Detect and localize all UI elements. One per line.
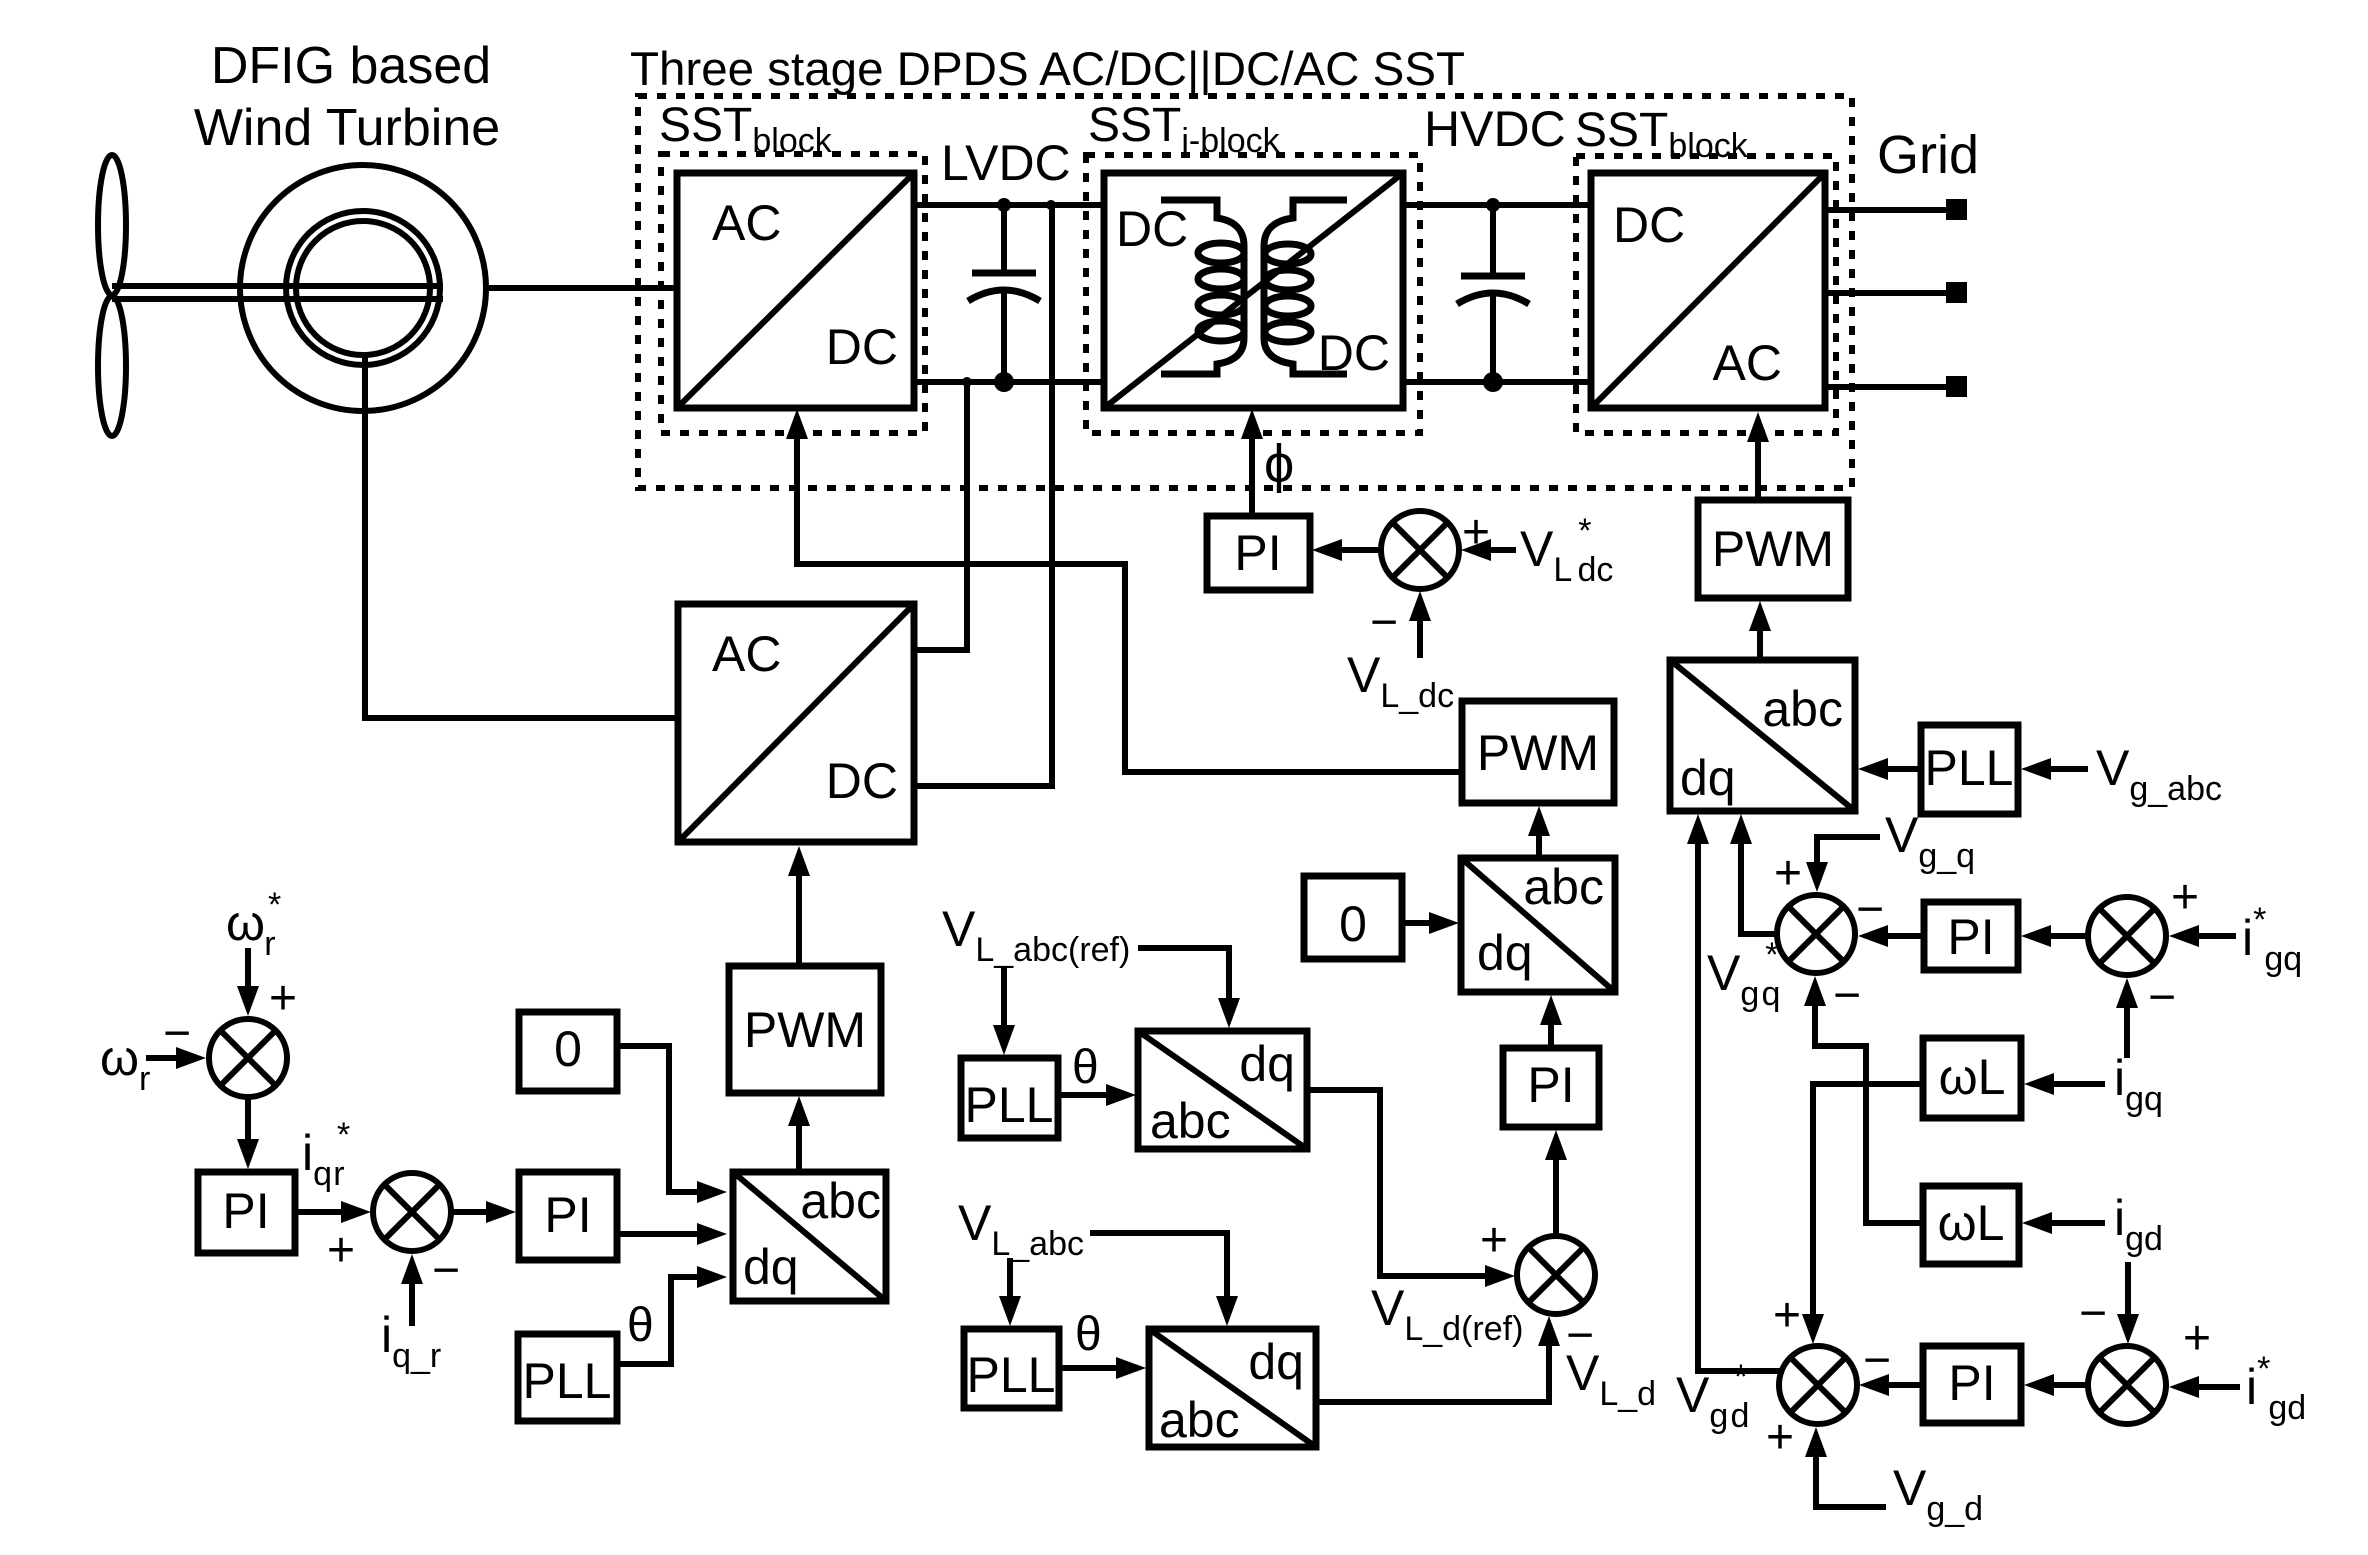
svg-text:+: + — [1773, 1289, 1801, 1342]
wire V_L_abc to PLL 2 — [999, 1258, 1021, 1326]
label V_L_d feedback — [1566, 1345, 1656, 1413]
label phi — [1264, 434, 1294, 494]
svg-text:PI: PI — [1234, 525, 1281, 581]
wire V_Ld(ref) to S2 — [1307, 1090, 1515, 1287]
summing junction S2 (V_Ld) — [1517, 1236, 1595, 1314]
label V_g_abc — [2096, 740, 2222, 808]
svg-text:−: − — [1833, 969, 1861, 1022]
wire PI current to rotor abc/dq — [617, 1223, 727, 1245]
wire V_g_d to S7 — [1805, 1427, 1886, 1507]
block abc/dq (LV modulation) — [1461, 858, 1615, 992]
wire S4 to PI current — [451, 1201, 516, 1223]
label Grid — [1877, 125, 1979, 185]
block PLL (grid) — [1921, 725, 2018, 814]
block gain omega-L (q) — [1923, 1038, 2021, 1118]
label minus S7 right — [1863, 1334, 1891, 1387]
DFIG generator stator circle — [240, 165, 486, 411]
wire V_L_abc(ref) to PLL — [993, 968, 1015, 1055]
label SST_block (left) — [659, 99, 833, 160]
wire S8 to PI igd — [2024, 1374, 2088, 1396]
label V_g*d output — [1676, 1358, 1749, 1435]
svg-text:ωL: ωL — [1938, 1195, 2005, 1251]
label theta (LV meas) — [1075, 1308, 1102, 1361]
label V_L_abc(ref) — [942, 901, 1130, 969]
svg-text:DC: DC — [826, 753, 898, 809]
label theta (LV ref) — [1072, 1041, 1099, 1094]
label V_L_dc feedback — [1347, 647, 1454, 715]
block PWM (rotor converter) — [729, 966, 881, 1093]
controller PI (V_Ld) — [1503, 1048, 1599, 1127]
block PLL (rotor) — [518, 1334, 617, 1421]
wire S2 to PI — [1545, 1130, 1567, 1236]
label minus S2 — [1566, 1309, 1594, 1362]
wire V_Ld to S2 — [1316, 1316, 1560, 1402]
wind turbine shaft — [112, 286, 443, 299]
svg-text:+: + — [1480, 1214, 1508, 1267]
label i*_gq reference — [2242, 901, 2302, 978]
svg-text:+: + — [327, 1224, 355, 1277]
svg-text:DFIG based: DFIG based — [211, 37, 491, 95]
svg-text:HVDC: HVDC — [1424, 101, 1566, 157]
wire abc/dq to PWM — [1528, 806, 1550, 858]
node LVDC label — [941, 135, 1071, 191]
node HVDC label — [1424, 101, 1566, 157]
svg-text:PWM: PWM — [744, 1002, 866, 1058]
svg-text:+: + — [2183, 1312, 2211, 1365]
wire PLL theta to abc/dq — [1058, 1084, 1136, 1106]
converter U4 AC/DC (rotor-side) — [678, 604, 914, 842]
wire 0 to rotor abc/dq — [617, 1046, 727, 1203]
label V_L_d(ref) — [1371, 1280, 1523, 1348]
wire PLL to grid abc/dq — [1858, 758, 1921, 780]
controller PI (speed) — [198, 1172, 295, 1253]
svg-text:PWM: PWM — [1477, 725, 1599, 781]
wire i_gd to S8 — [2117, 1262, 2139, 1344]
label plus S5 — [1774, 847, 1802, 900]
label i_gd input — [2114, 1190, 2163, 1258]
svg-text:PI: PI — [1948, 1355, 1995, 1411]
label plus S4 — [327, 1224, 355, 1277]
inner dashed box SST_i-block — [1086, 155, 1420, 433]
label V_g_d feedforward — [1893, 1460, 1983, 1528]
block abc/dq (grid modulation) — [1670, 660, 1855, 811]
wire PWM to rotor converter gate — [788, 846, 810, 966]
svg-text:LVDC: LVDC — [941, 135, 1071, 191]
svg-text:PLL: PLL — [967, 1347, 1056, 1403]
wire grid abc/dq to PWM — [1749, 601, 1771, 660]
label omega_r* reference — [226, 886, 281, 963]
wire PI igd to S7 — [1859, 1374, 1923, 1396]
wire S5 to grid abc/dq (V_gq*) — [1730, 814, 1777, 934]
svg-text:dq: dq — [1477, 925, 1533, 981]
wire V_L*dc to S1 — [1461, 539, 1516, 561]
block zero reference (LV q) — [1304, 876, 1402, 959]
svg-text:DC: DC — [1613, 197, 1685, 253]
wire S7 to grid abc/dq (V_gd*) — [1687, 814, 1784, 1371]
svg-text:dq: dq — [1248, 1334, 1304, 1390]
summing junction S5 (V_gq*) — [1777, 895, 1855, 973]
svg-text:PI: PI — [1527, 1057, 1574, 1113]
label V_g_q feedforward — [1885, 807, 1975, 875]
junction dot LVDC+ rotor link — [1046, 200, 1056, 210]
svg-text:abc: abc — [1762, 681, 1843, 737]
wire i_gd to omega-L d — [2022, 1212, 2105, 1234]
wind turbine blade upper — [98, 155, 126, 295]
wire i*gq to S6 — [2169, 925, 2236, 947]
wire grid phase b — [1825, 290, 1946, 296]
svg-text:PLL: PLL — [965, 1077, 1054, 1133]
label i_gq input — [2114, 1050, 2163, 1118]
label minus S5 right — [1856, 883, 1884, 936]
wire stator to SST input — [486, 285, 677, 291]
svg-text:+: + — [1766, 1411, 1794, 1464]
svg-text:−: − — [2148, 971, 2176, 1024]
wire i_q_r to S4 — [401, 1254, 423, 1326]
wire omega-L q to S7 — [1802, 1084, 1923, 1344]
wire PLL theta to rotor abc/dq — [617, 1266, 727, 1364]
svg-text:abc: abc — [800, 1173, 881, 1229]
wire i*gd to S8 — [2169, 1376, 2240, 1398]
wire grid phase a — [1825, 207, 1946, 213]
label i_q*_r reference — [302, 1116, 350, 1193]
label plus S6 — [2171, 871, 2199, 924]
junction dot LVDC- cap — [994, 372, 1014, 392]
svg-text:ωL: ωL — [1939, 1049, 2006, 1105]
junction dot HVDC+ cap — [1486, 198, 1500, 212]
svg-text:+: + — [2171, 871, 2199, 924]
svg-text:Wind Turbine: Wind Turbine — [194, 99, 500, 157]
wire V_L_abc to abc/dq 2 — [1090, 1233, 1238, 1326]
wire V_L_abc(ref) to abc/dq — [1138, 948, 1240, 1028]
label plus S1 — [1462, 506, 1490, 559]
wire rotor-converter upper DC to LVDC- bus — [914, 382, 967, 650]
label i_q_r feedback — [381, 1307, 441, 1375]
label minus S3 — [163, 1007, 191, 1060]
svg-text:dq: dq — [1239, 1036, 1295, 1092]
wire S6 to PI igq — [2021, 925, 2088, 947]
inner dashed box SST_block right — [1576, 156, 1836, 433]
svg-text:dq: dq — [743, 1239, 799, 1295]
svg-text:DC: DC — [1116, 201, 1188, 257]
wire HVDC bottom bus — [1403, 379, 1591, 385]
wire PI igq to S5 — [1858, 925, 1921, 947]
wire V_Ldc to S1 — [1409, 591, 1431, 658]
wire PLL2 theta to abc/dq 2 — [1059, 1357, 1146, 1379]
DFIG generator rotor circles — [286, 211, 440, 365]
block PWM (LV stator converter) — [1462, 701, 1614, 803]
wire LVDC bottom bus — [914, 379, 1104, 385]
svg-text:0: 0 — [554, 1021, 582, 1077]
svg-text:AC: AC — [712, 195, 781, 251]
grid terminal c — [1946, 376, 1967, 397]
svg-text:+: + — [269, 972, 297, 1025]
svg-text:−: − — [1370, 596, 1398, 649]
wire omega* to S3 — [237, 948, 259, 1016]
wire LVDC top bus — [914, 202, 1104, 208]
svg-text:0: 0 — [1339, 896, 1367, 952]
svg-text:PLL: PLL — [1925, 740, 2014, 796]
label V_L_abc — [958, 1195, 1084, 1263]
svg-text:θ: θ — [1075, 1308, 1102, 1361]
svg-text:abc: abc — [1523, 859, 1604, 915]
svg-text:abc: abc — [1159, 1392, 1240, 1448]
controller PI (phi, DAB) — [1207, 516, 1310, 590]
label omega_r measured — [100, 1030, 150, 1098]
wind turbine blade lower — [98, 296, 126, 436]
svg-text:PI: PI — [1947, 909, 1994, 965]
wire phi arrow PI to DAB — [1241, 409, 1263, 516]
label minus S1 — [1370, 596, 1398, 649]
wire V_g_q to S5 — [1806, 837, 1880, 892]
svg-text:dq: dq — [1680, 750, 1736, 806]
transformer T1 secondary winding — [1264, 200, 1347, 374]
converter U1 AC/DC (stator-side LV rectifier) — [677, 173, 914, 408]
transformer T1 primary winding — [1161, 200, 1244, 374]
svg-text:Three stage DPDS AC/DC||DC/AC: Three stage DPDS AC/DC||DC/AC SST — [630, 43, 1465, 96]
svg-text:abc: abc — [1150, 1093, 1231, 1149]
label plus S7 top — [1773, 1289, 1801, 1342]
svg-text:DC: DC — [826, 319, 898, 375]
label plus S7 bottom — [1766, 1411, 1794, 1464]
svg-text:−: − — [432, 1244, 460, 1297]
wire rotor abc/dq to PWM — [788, 1096, 810, 1172]
wire PWM to stator converter gate — [786, 409, 1462, 772]
wire omega-L d to S5 minus — [1804, 976, 1923, 1223]
capacitor C1 (LVDC link) — [968, 205, 1040, 382]
wire grid phase c — [1825, 384, 1946, 390]
label minus S8 top — [2079, 1287, 2107, 1340]
svg-text:PI: PI — [222, 1183, 269, 1239]
label minus S4 — [432, 1244, 460, 1297]
controller PI (i_gd) — [1923, 1346, 2021, 1423]
svg-text:ϕ: ϕ — [1264, 434, 1294, 494]
svg-text:PI: PI — [544, 1187, 591, 1243]
block zero reference (rotor d) — [519, 1012, 617, 1091]
junction dot LVDC+ cap — [997, 198, 1011, 212]
wire 0 to abc/dq — [1402, 912, 1459, 934]
label plus S2 — [1480, 1214, 1508, 1267]
svg-text:AC: AC — [1713, 335, 1782, 391]
junction dot HVDC- cap — [1483, 372, 1503, 392]
label SST_block (right) — [1575, 104, 1749, 165]
capacitor C2 (HVDC link) — [1457, 205, 1529, 382]
wire rotor to rotor-side converter — [365, 354, 678, 718]
label: DFIG based Wind Turbine — [194, 37, 500, 157]
block gain omega-L (d) — [1923, 1186, 2019, 1264]
svg-text:PWM: PWM — [1712, 521, 1834, 577]
block PLL (V_L measured) — [964, 1329, 1059, 1408]
svg-text:θ: θ — [627, 1299, 654, 1352]
inner dashed box SST_block left — [661, 154, 925, 433]
label plus S8 — [2183, 1312, 2211, 1365]
wire S1 to PI — [1312, 539, 1383, 561]
wire PWM to grid inverter gate — [1747, 412, 1769, 500]
wire i_gq to omega-L q — [2024, 1073, 2105, 1095]
svg-text:PLL: PLL — [523, 1353, 612, 1409]
label i*_gd reference — [2246, 1350, 2306, 1427]
summing junction S1 (V_Ldc) — [1381, 511, 1459, 589]
label V_L*dc reference — [1520, 512, 1613, 589]
block abc/dq (V_L measurement) — [1149, 1329, 1316, 1448]
converter U3 DC/AC (grid-side HV inverter) — [1591, 173, 1825, 408]
label theta (rotor) — [627, 1299, 654, 1352]
controller PI (i_gq) — [1924, 902, 2018, 970]
svg-text:Grid: Grid — [1877, 125, 1979, 185]
summing junction S6 (i_gq) — [2088, 897, 2166, 975]
block PWM (grid inverter) — [1698, 500, 1848, 598]
controller PI (rotor current) — [519, 1172, 617, 1260]
svg-text:−: − — [2079, 1287, 2107, 1340]
svg-text:+: + — [1774, 847, 1802, 900]
summing junction S8 (i_gd) — [2088, 1346, 2166, 1424]
summing junction S3 (speed) — [209, 1019, 287, 1097]
block PLL (LV reference) — [961, 1058, 1058, 1138]
summing junction S4 (i_q) — [373, 1173, 451, 1251]
junction dot LVDC- rotor link — [962, 377, 972, 387]
summing junction S7 (V_gd*) — [1779, 1346, 1857, 1424]
wire S3 to PI speed — [237, 1097, 259, 1169]
wire omega_r to S3 — [146, 1047, 206, 1069]
svg-text:AC: AC — [712, 626, 781, 682]
label SST_i-block — [1088, 99, 1281, 160]
label plus S3 — [269, 972, 297, 1025]
svg-text:−: − — [1863, 1334, 1891, 1387]
wire rotor-converter lower DC to LVDC+ bus — [914, 205, 1052, 786]
grid terminal a — [1946, 199, 1967, 220]
block abc/dq (rotor modulation) — [733, 1172, 886, 1301]
block abc/dq (V_L reference frame) — [1138, 1031, 1307, 1149]
converter U2 DC/DC dual-active-bridge — [1104, 173, 1403, 408]
wire PI speed to S4 — [295, 1201, 371, 1223]
title: Three stage DPDS SST — [630, 43, 1465, 96]
label minus S5 bottom — [1833, 969, 1861, 1022]
wire PI to abc/dq — [1540, 995, 1562, 1048]
label minus S6 — [2148, 971, 2176, 1024]
outer dashed box SST system — [638, 96, 1852, 488]
svg-text:θ: θ — [1072, 1041, 1099, 1094]
label V_g*q output — [1707, 936, 1780, 1013]
wire HVDC top bus — [1403, 202, 1591, 208]
grid terminal b — [1946, 282, 1967, 303]
wire i_gq to S6 — [2116, 978, 2138, 1058]
wire V_g_abc to PLL — [2021, 758, 2088, 780]
